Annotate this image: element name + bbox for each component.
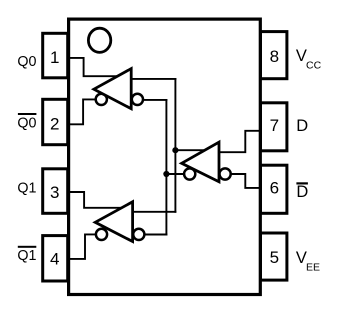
inverting output bubble of receiver U1c — [184, 168, 195, 179]
wire complement bus vertical — [165, 99, 167, 236]
inverting input bubble of buffer A — [132, 94, 143, 105]
svg-text:CC: CC — [306, 59, 322, 71]
pin 7 box — [261, 103, 287, 151]
pin 3 box — [43, 169, 68, 214]
wire buffer B non-inverting input to true bus — [131, 211, 176, 213]
inverting input bubble of buffer B — [133, 229, 144, 240]
pin number 8 — [270, 47, 279, 66]
pin 1 box — [43, 33, 68, 78]
label Q0-bar (pin 2) — [17, 113, 36, 131]
svg-text:3: 3 — [50, 183, 59, 202]
wire true bus vertical — [174, 78, 176, 213]
receiver U1c (D input) triangle — [182, 142, 219, 182]
pin number 7 — [270, 116, 279, 135]
svg-text:D: D — [296, 117, 308, 135]
svg-text:2: 2 — [50, 115, 59, 134]
pin 8 box — [261, 32, 287, 79]
svg-text:Q0: Q0 — [17, 115, 36, 131]
inverting output bubble of buffer A — [96, 94, 107, 105]
junction node on true bus — [172, 147, 178, 153]
pin number 5 — [270, 248, 279, 267]
svg-text:1: 1 — [50, 48, 59, 67]
label D (pin 7) — [296, 117, 308, 135]
pin number 4 — [50, 250, 59, 269]
wire buffer B inverting input bubble to complement bus — [141, 234, 167, 236]
label Q1-bar (pin 4) — [17, 246, 36, 264]
wire pin6 Dbar to receiver U1c inverting input bubble — [225, 174, 261, 188]
label VCC (pin 8) — [296, 47, 322, 72]
svg-text:4: 4 — [50, 250, 59, 269]
inverting output bubble of buffer B — [96, 229, 107, 240]
IC body U1 — [69, 19, 261, 294]
svg-text:Q0: Q0 — [17, 54, 36, 70]
svg-text:6: 6 — [270, 179, 279, 198]
label Q1 (pin 3) — [17, 180, 36, 196]
pin 4 box — [43, 236, 68, 281]
buffer B (Q1 driver) triangle — [95, 202, 132, 242]
svg-text:7: 7 — [270, 116, 279, 135]
label Q0 (pin 1) — [17, 54, 36, 70]
inverting input bubble of receiver U1c — [220, 168, 231, 179]
junction node on complement bus — [163, 171, 169, 177]
pin 5 box — [261, 233, 287, 280]
pin number 3 — [50, 183, 59, 202]
pin number 6 — [270, 179, 279, 198]
svg-text:EE: EE — [306, 261, 320, 273]
pin 6 box — [261, 165, 287, 213]
svg-text:Q1: Q1 — [17, 248, 36, 264]
svg-text:D: D — [296, 183, 308, 201]
pin 2 box — [43, 99, 68, 144]
buffer A (Q0 driver) triangle — [94, 69, 131, 109]
wire pin7 D to receiver U1c non-inverting input — [216, 131, 261, 152]
svg-text:Q1: Q1 — [17, 180, 36, 196]
label D-bar (pin 6) — [296, 182, 308, 201]
wire pin1 to buffer A non-inverting output — [68, 58, 121, 76]
wire pin3 to buffer B non-inverting output — [68, 192, 123, 208]
svg-text:5: 5 — [270, 248, 279, 267]
svg-text:8: 8 — [270, 47, 279, 66]
pin number 2 — [50, 115, 59, 134]
wire pin4 to buffer B inverting output bubble — [68, 234, 102, 259]
wire buffer A non-inverting input to true bus — [130, 78, 177, 80]
label VEE (pin 5) — [296, 249, 320, 274]
wire receiver U1c non-inverting output to true bus — [175, 149, 208, 151]
wire receiver U1c inverting output bubble to complement bus — [166, 173, 187, 175]
wire pin2 to buffer A inverting output bubble — [68, 99, 101, 124]
pin 1 indicator circle — [88, 28, 110, 52]
wire buffer A inverting input bubble to complement bus — [140, 99, 167, 101]
pin number 1 — [50, 48, 59, 67]
